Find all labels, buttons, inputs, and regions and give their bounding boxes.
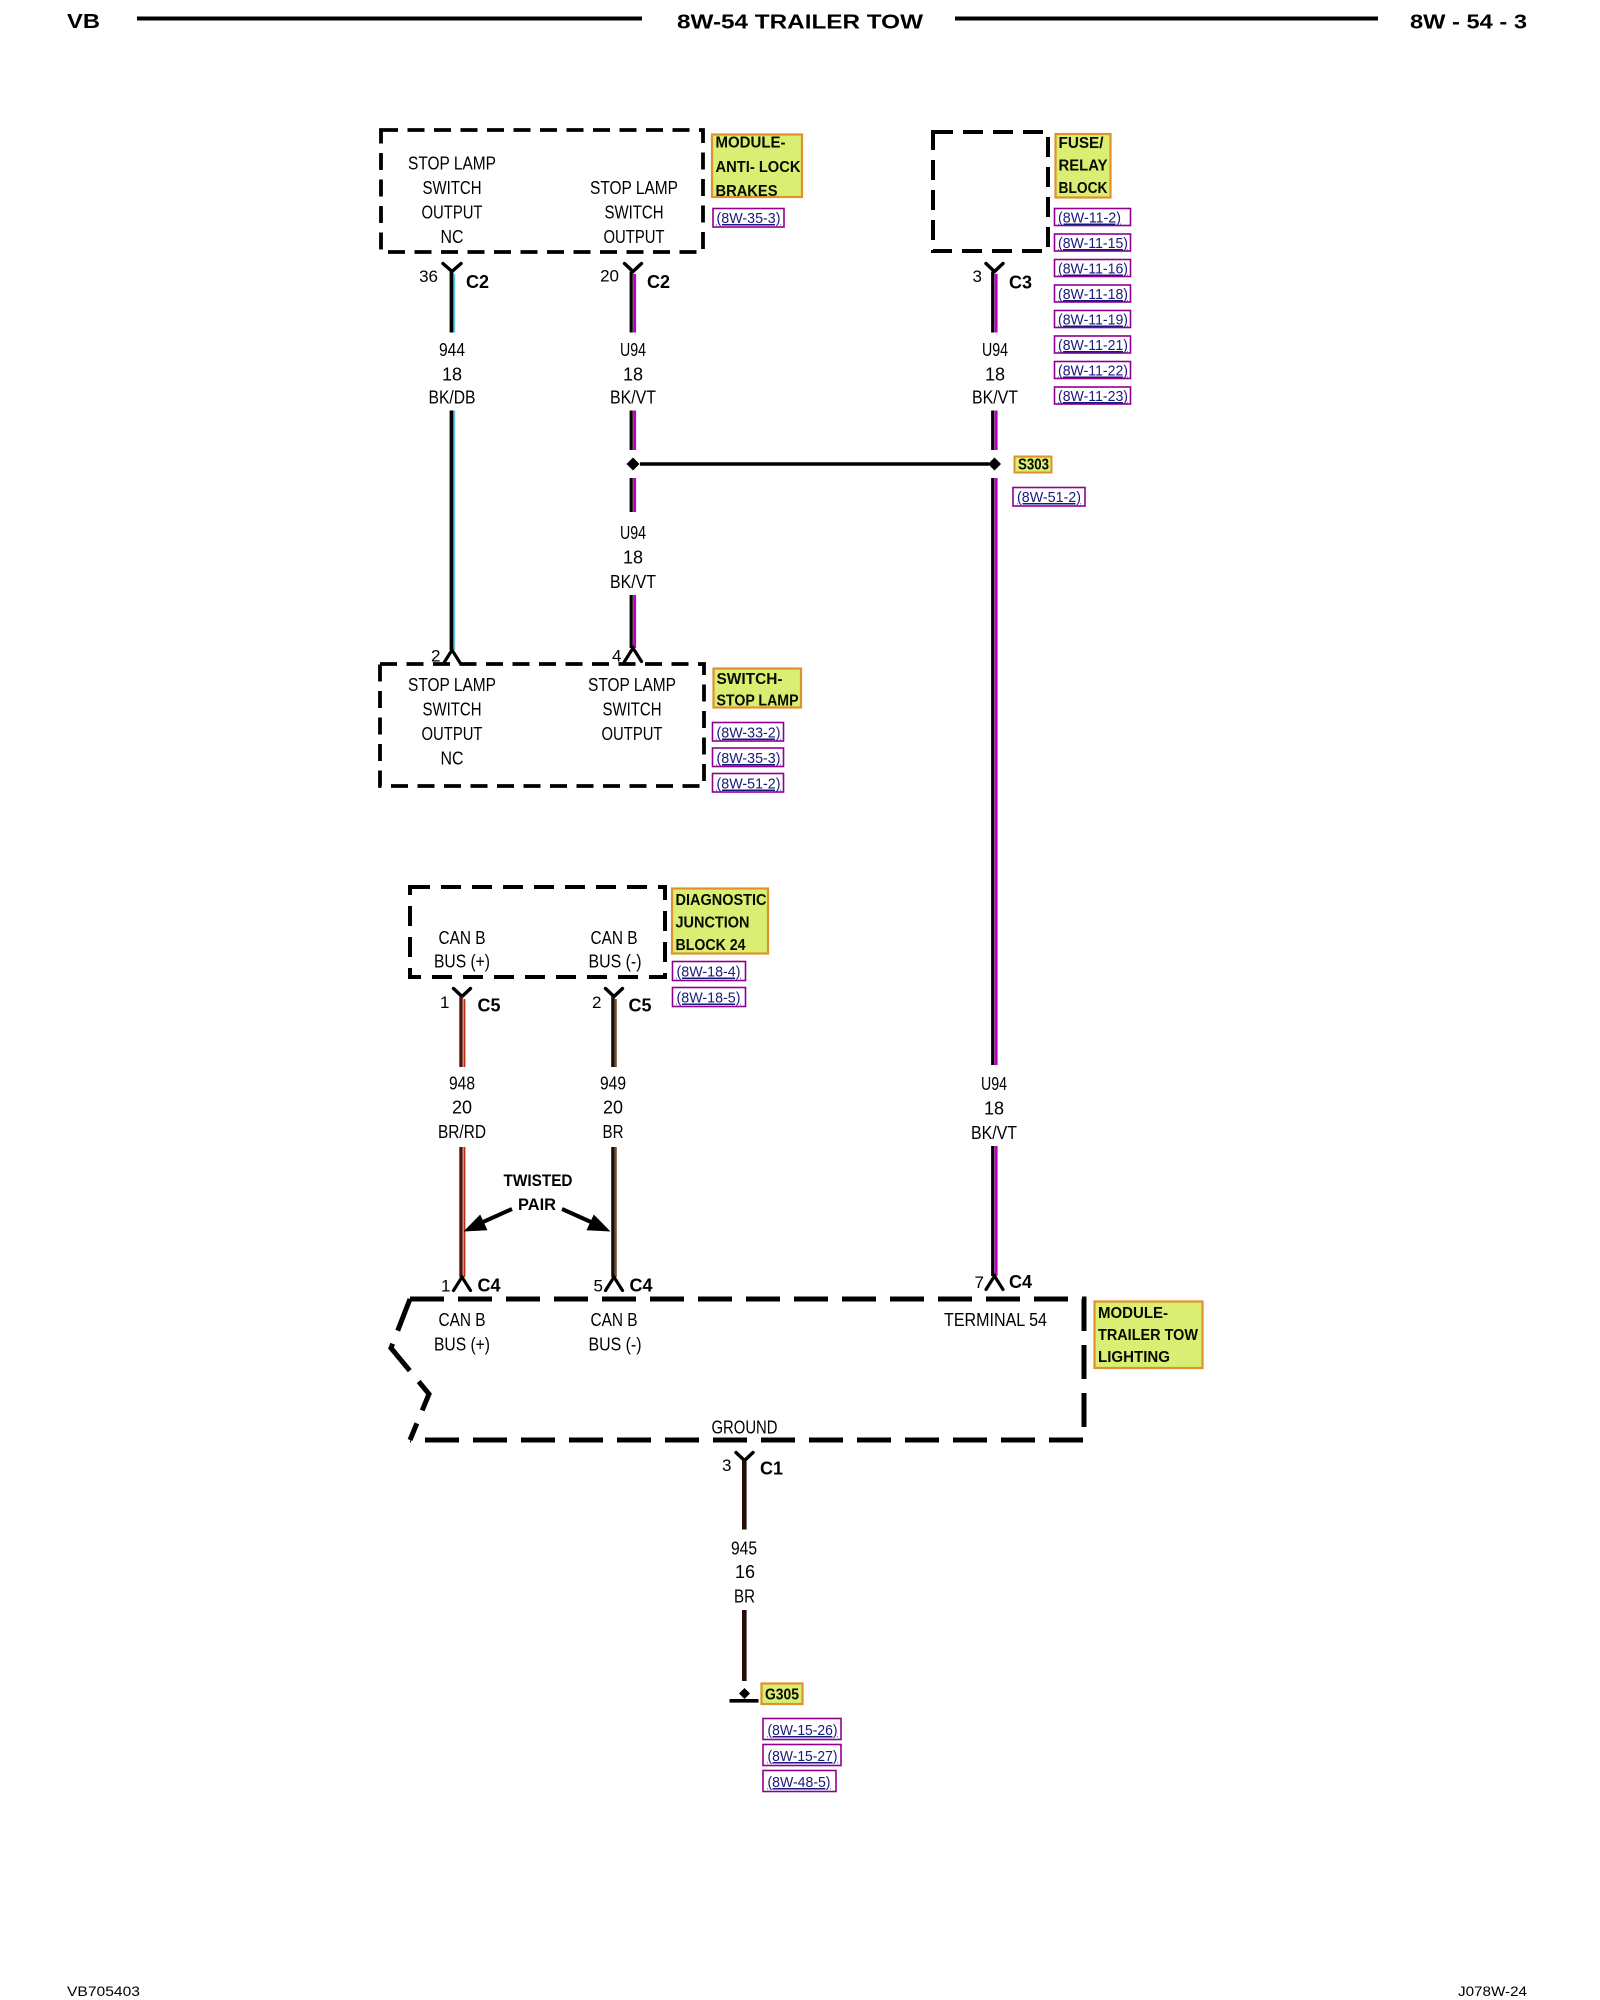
svg-text:BLOCK 24: BLOCK 24 — [676, 937, 746, 954]
svg-text:16: 16 — [735, 1562, 755, 1582]
svg-text:OUTPUT: OUTPUT — [604, 227, 665, 247]
svg-text:CAN B: CAN B — [591, 928, 638, 948]
connector pin 5 C4 — [594, 1276, 653, 1296]
wire 948 20 BR/RD segment 2 — [461, 1147, 464, 1277]
link 8W-33-2 — [713, 723, 784, 742]
svg-text:U94: U94 — [982, 340, 1008, 360]
svg-text:C5: C5 — [629, 996, 652, 1016]
svg-text:CAN B: CAN B — [439, 928, 486, 948]
svg-text:PAIR: PAIR — [518, 1195, 556, 1214]
svg-text:SWITCH-: SWITCH- — [717, 671, 783, 688]
svg-text:BUS (+): BUS (+) — [434, 1335, 490, 1355]
wire label 945 16 BR — [731, 1539, 757, 1607]
svg-text:CAN B: CAN B — [591, 1310, 638, 1330]
svg-text:DIAGNOSTIC: DIAGNOSTIC — [676, 892, 767, 909]
svg-text:BUS (+): BUS (+) — [434, 952, 490, 972]
link 8W-15-26 — [763, 1719, 841, 1740]
link 8W-51-2 — [1013, 488, 1085, 507]
wire 949 20 BR segment 2 — [613, 1147, 616, 1277]
label STOP LAMP SWITCH OUTPUT (pin 4) — [588, 675, 676, 744]
note TWISTED PAIR — [504, 1171, 573, 1214]
svg-text:G305: G305 — [765, 1687, 799, 1704]
svg-text:5: 5 — [594, 1277, 603, 1296]
svg-text:J078W-24: J078W-24 — [1458, 1984, 1528, 1999]
svg-text:BR/RD: BR/RD — [438, 1122, 486, 1142]
header rule left — [137, 17, 642, 21]
connector pin 1 C5 — [440, 989, 500, 1016]
svg-text:BUS (-): BUS (-) — [589, 1335, 642, 1355]
svg-text:BK/VT: BK/VT — [971, 1123, 1017, 1143]
svg-text:20: 20 — [600, 267, 619, 286]
link 8W-11-21 — [1055, 336, 1131, 354]
label CAN B BUS (-) (module) — [589, 1310, 642, 1355]
connector pin 7 C4 — [975, 1272, 1032, 1292]
switch-stop lamp dashed box — [380, 664, 704, 786]
svg-text:(8W-35-3): (8W-35-3) — [717, 750, 781, 767]
svg-text:(8W-11-18): (8W-11-18) — [1058, 286, 1128, 303]
svg-text:1: 1 — [440, 993, 449, 1012]
svg-text:SWITCH: SWITCH — [605, 203, 664, 223]
wire label U94 18 BK/VT (right) — [972, 340, 1018, 408]
svg-text:(8W-18-5): (8W-18-5) — [677, 990, 741, 1007]
svg-text:3: 3 — [973, 267, 982, 286]
svg-text:VB705403: VB705403 — [67, 1984, 140, 1999]
svg-text:SWITCH: SWITCH — [603, 700, 662, 720]
splice junction diamond at S303 (right) — [988, 458, 1001, 471]
svg-text:BK/VT: BK/VT — [610, 572, 656, 592]
svg-text:(8W-11-19): (8W-11-19) — [1058, 312, 1128, 329]
wire 949 20 BR segment 1 — [613, 997, 616, 1068]
svg-text:STOP LAMP: STOP LAMP — [590, 178, 678, 198]
module ABS dashed box — [381, 130, 703, 252]
tag MODULE-TRAILER TOW LIGHTING — [1095, 1302, 1203, 1369]
svg-text:RELAY: RELAY — [1059, 158, 1109, 175]
wire 945 16 BR segment 1 — [742, 1461, 747, 1530]
tag FUSE/RELAY BLOCK — [1056, 134, 1111, 198]
svg-text:(8W-11-16): (8W-11-16) — [1058, 261, 1128, 278]
svg-text:C3: C3 — [1009, 273, 1032, 293]
svg-text:8W-54 TRAILER TOW: 8W-54 TRAILER TOW — [677, 11, 924, 34]
svg-text:949: 949 — [600, 1074, 626, 1094]
svg-text:C5: C5 — [478, 996, 501, 1016]
link 8W-11-16 — [1055, 260, 1131, 278]
link 8W-48-5 — [763, 1771, 836, 1792]
svg-text:20: 20 — [603, 1098, 623, 1118]
label STOP LAMP SWITCH OUTPUT NC (pin 36) — [408, 154, 496, 248]
svg-text:(8W-11-23): (8W-11-23) — [1058, 388, 1128, 405]
svg-text:(8W-35-3): (8W-35-3) — [717, 210, 781, 227]
svg-text:(8W-11-2): (8W-11-2) — [1058, 210, 1121, 227]
wire 945 16 BR segment 2 — [742, 1610, 747, 1681]
svg-text:18: 18 — [984, 1099, 1004, 1119]
svg-text:(8W-51-2): (8W-51-2) — [717, 776, 781, 793]
tag S303 — [1015, 457, 1052, 474]
link 8W-15-27 — [763, 1745, 841, 1766]
svg-text:TWISTED: TWISTED — [504, 1171, 573, 1190]
svg-text:C2: C2 — [466, 272, 489, 292]
svg-text:C4: C4 — [478, 1276, 501, 1296]
splice junction diamond at S303 (left) — [627, 458, 640, 471]
svg-text:(8W-11-21): (8W-11-21) — [1058, 337, 1128, 354]
connector pin 20 C2 — [600, 264, 670, 293]
label CAN B BUS (-) — [589, 928, 642, 972]
svg-text:ANTI- LOCK: ANTI- LOCK — [716, 159, 802, 176]
svg-text:20: 20 — [452, 1098, 472, 1118]
svg-text:3: 3 — [722, 1456, 731, 1475]
svg-text:1: 1 — [441, 1277, 450, 1296]
svg-text:S303: S303 — [1018, 457, 1049, 474]
svg-text:CAN B: CAN B — [439, 1310, 486, 1330]
svg-text:36: 36 — [419, 267, 438, 286]
link 8W-51-2 (switch) — [713, 774, 784, 793]
connector pin 2 C5 — [592, 989, 651, 1016]
wire 944 18 BK/DB segment 2 — [452, 411, 455, 651]
wire label U94 18 BK/VT — [610, 340, 656, 408]
diagnostic junction block dashed box — [410, 887, 665, 977]
svg-text:U94: U94 — [981, 1074, 1007, 1094]
svg-text:NC: NC — [441, 227, 464, 247]
wire label U94 18 BK/VT (lower) — [610, 523, 656, 592]
svg-text:(8W-33-2): (8W-33-2) — [717, 725, 781, 742]
svg-text:2: 2 — [592, 993, 601, 1012]
link 8W-18-5 — [673, 988, 746, 1007]
svg-text:944: 944 — [439, 340, 465, 360]
label CAN B BUS (+) (module) — [434, 1310, 490, 1355]
svg-text:SWITCH: SWITCH — [423, 178, 482, 198]
svg-text:C4: C4 — [630, 1276, 653, 1296]
svg-text:(8W-18-4): (8W-18-4) — [677, 964, 741, 981]
svg-text:C2: C2 — [647, 272, 670, 292]
wire U94 18 BK/VT segment 4 — [631, 595, 634, 648]
link 8W-11-23 — [1055, 387, 1131, 405]
link 8W-11-22 — [1055, 362, 1131, 380]
svg-text:TERMINAL 54: TERMINAL 54 — [944, 1310, 1047, 1330]
link 8W-11-15 — [1055, 234, 1131, 252]
wire U94 18 BK/VT segment 2 — [631, 411, 634, 451]
wire label 948 20 BR/RD — [438, 1074, 486, 1143]
svg-text:MODULE-: MODULE- — [716, 135, 786, 152]
svg-text:BRAKES: BRAKES — [716, 183, 778, 200]
svg-text:18: 18 — [623, 548, 643, 568]
wire label 944 18 BK/DB — [429, 340, 476, 408]
svg-text:SWITCH: SWITCH — [423, 700, 482, 720]
wire 944 18 BK/DB segment 1 — [452, 272, 455, 333]
label CAN B BUS (+) — [434, 928, 490, 972]
svg-text:STOP LAMP: STOP LAMP — [717, 693, 799, 710]
svg-text:JUNCTION: JUNCTION — [676, 915, 750, 932]
connector pin 3 C3 — [973, 264, 1032, 293]
svg-text:18: 18 — [985, 365, 1005, 385]
link 8W-18-4 — [673, 962, 746, 981]
svg-text:18: 18 — [442, 365, 462, 385]
svg-text:FUSE/: FUSE/ — [1059, 135, 1105, 152]
svg-text:LIGHTING: LIGHTING — [1098, 1349, 1170, 1366]
tag G305 — [762, 1684, 803, 1705]
svg-text:C4: C4 — [1009, 1272, 1032, 1292]
svg-text:18: 18 — [623, 365, 643, 385]
svg-text:BK/DB: BK/DB — [429, 388, 476, 408]
link 8W-11-19 — [1055, 311, 1131, 329]
connector pin 1 C4 — [441, 1276, 500, 1296]
ground G305 symbol — [730, 1688, 759, 1701]
svg-text:OUTPUT: OUTPUT — [422, 724, 483, 744]
svg-text:948: 948 — [449, 1074, 475, 1094]
label STOP LAMP SWITCH OUTPUT (pin 20) — [590, 178, 678, 247]
svg-text:(8W-11-22): (8W-11-22) — [1058, 363, 1128, 380]
svg-text:BK/VT: BK/VT — [610, 388, 656, 408]
twisted pair arrow right — [562, 1209, 611, 1232]
svg-text:VB: VB — [67, 11, 100, 33]
label STOP LAMP SWITCH OUTPUT NC (pin 2) — [408, 675, 496, 769]
link 8W-35-3 (switch) — [713, 748, 784, 767]
connector pin 2 (stop lamp switch) — [431, 647, 460, 666]
svg-text:(8W-11-15): (8W-11-15) — [1058, 235, 1128, 252]
wire label 949 20 BR — [600, 1074, 626, 1143]
svg-text:BR: BR — [734, 1587, 755, 1607]
svg-text:BLOCK: BLOCK — [1059, 180, 1109, 197]
svg-text:STOP LAMP: STOP LAMP — [588, 675, 676, 695]
twisted pair arrow left — [464, 1209, 513, 1232]
svg-text:NC: NC — [441, 749, 464, 769]
svg-text:(8W-15-26): (8W-15-26) — [768, 1722, 838, 1739]
svg-text:(8W-15-27): (8W-15-27) — [768, 1748, 838, 1765]
svg-text:C1: C1 — [760, 1459, 783, 1479]
svg-text:BUS (-): BUS (-) — [589, 952, 642, 972]
svg-text:U94: U94 — [620, 340, 646, 360]
splice bus wire S303 — [640, 462, 989, 466]
wire U94 18 BK/VT (right) segment 4 — [993, 1146, 996, 1276]
wire U94 18 BK/VT segment 1 — [631, 272, 634, 333]
tag DIAGNOSTIC JUNCTION BLOCK 24 — [672, 889, 768, 955]
connector pin 36 C2 — [419, 264, 489, 293]
wire U94 18 BK/VT (right) segment 1 — [993, 272, 996, 333]
svg-text:(8W-48-5): (8W-48-5) — [768, 1774, 831, 1791]
wire label U94 18 BK/VT (bottom right) — [971, 1074, 1017, 1143]
connector pin 4 (stop lamp switch) — [612, 647, 641, 666]
tag MODULE-ANTI-LOCK BRAKES — [712, 135, 802, 201]
svg-text:(8W-51-2): (8W-51-2) — [1017, 489, 1081, 506]
svg-text:TRAILER TOW: TRAILER TOW — [1098, 1327, 1198, 1344]
svg-text:MODULE-: MODULE- — [1098, 1305, 1168, 1322]
module trailer tow lighting dashed box with break — [391, 1299, 1084, 1440]
svg-text:BK/VT: BK/VT — [972, 388, 1018, 408]
svg-text:BR: BR — [603, 1122, 624, 1142]
link 8W-11-2 — [1055, 209, 1131, 227]
tag SWITCH-STOP LAMP — [714, 669, 802, 710]
link 8W-35-3 — [713, 209, 784, 228]
svg-text:8W - 54 - 3: 8W - 54 - 3 — [1410, 11, 1527, 34]
svg-text:GROUND: GROUND — [712, 1418, 778, 1438]
svg-text:STOP LAMP: STOP LAMP — [408, 675, 496, 695]
svg-text:OUTPUT: OUTPUT — [422, 203, 483, 223]
connector pin 3 C1 — [722, 1453, 783, 1479]
wire U94 18 BK/VT (right) segment 3 long — [993, 478, 996, 1065]
header rule right — [955, 17, 1378, 21]
wire U94 18 BK/VT (right) segment 2 — [993, 411, 996, 451]
wire U94 18 BK/VT segment 3 — [631, 478, 634, 512]
svg-text:OUTPUT: OUTPUT — [602, 724, 663, 744]
svg-text:945: 945 — [731, 1539, 757, 1559]
svg-text:STOP LAMP: STOP LAMP — [408, 154, 496, 174]
fuse/relay block dashed box — [933, 132, 1048, 251]
svg-text:U94: U94 — [620, 523, 646, 543]
link 8W-11-18 — [1055, 285, 1131, 303]
wire 948 20 BR/RD segment 1 — [461, 997, 464, 1068]
svg-text:7: 7 — [975, 1273, 984, 1292]
